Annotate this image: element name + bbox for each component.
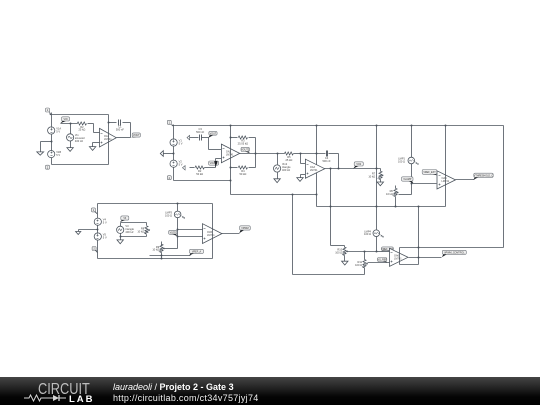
- svg-text:LM741: LM741: [310, 169, 318, 172]
- svg-text:VOUT: VOUT: [133, 134, 140, 137]
- svg-text:LM741: LM741: [226, 154, 234, 157]
- svg-text:400 Hz: 400 Hz: [125, 230, 134, 234]
- svg-text:VLAMP: VLAMP: [403, 178, 412, 181]
- svg-text:100 Ω: 100 Ω: [335, 251, 342, 255]
- svg-text:100 Ω: 100 Ω: [355, 263, 362, 267]
- svg-text:5 V: 5 V: [103, 221, 107, 225]
- svg-text:400 Hz: 400 Hz: [75, 139, 84, 143]
- svg-text:VO2: VO2: [356, 163, 361, 166]
- svg-text:VOUT: VOUT: [210, 132, 217, 135]
- svg-text:LM741: LM741: [207, 234, 215, 237]
- svg-text:500 nF: 500 nF: [322, 159, 330, 163]
- svg-text:50 kΩ: 50 kΩ: [239, 172, 246, 176]
- svg-text:LM741: LM741: [394, 258, 402, 261]
- svg-text:5 V: 5 V: [179, 163, 183, 167]
- svg-text:100 Ω: 100 Ω: [398, 160, 405, 164]
- svg-text:10 kΩ: 10 kΩ: [137, 229, 144, 233]
- svg-text:VREF_EXT: VREF_EXT: [423, 171, 436, 174]
- svg-text:VPWM: VPWM: [241, 227, 248, 230]
- svg-text:25.05 kΩ: 25.05 kΩ: [238, 142, 249, 146]
- svg-text:5 V: 5 V: [179, 141, 183, 145]
- svg-text:500 nF: 500 nF: [196, 130, 204, 134]
- svg-text:100 Ω: 100 Ω: [165, 213, 172, 217]
- svg-text:VTHRESHOLD_C: VTHRESHOLD_C: [474, 174, 494, 177]
- svg-text:10 kΩ: 10 kΩ: [386, 192, 393, 196]
- svg-text:5 V: 5 V: [56, 129, 60, 133]
- svg-text:VPWM_CONTROL: VPWM_CONTROL: [444, 251, 465, 254]
- svg-text:5 V: 5 V: [56, 153, 60, 157]
- svg-text:500 nF: 500 nF: [116, 128, 124, 132]
- svg-text:10 kΩ: 10 kΩ: [368, 175, 375, 179]
- svg-text:VREF_A: VREF_A: [192, 250, 202, 253]
- svg-text:100 Ω: 100 Ω: [364, 232, 371, 236]
- svg-text:25 kΩ: 25 kΩ: [285, 158, 292, 162]
- svg-text:50 kΩ: 50 kΩ: [196, 172, 203, 176]
- svg-text:VIN: VIN: [64, 118, 68, 121]
- svg-text:VLED: VLED: [170, 231, 177, 234]
- svg-text:VS_REF: VS_REF: [377, 259, 387, 262]
- svg-text:10 kΩ: 10 kΩ: [152, 248, 159, 252]
- svg-text:400 Hz: 400 Hz: [282, 168, 291, 172]
- svg-text:25 kΩ: 25 kΩ: [78, 128, 85, 132]
- svg-text:5 V: 5 V: [103, 235, 107, 239]
- svg-text:VOUT2: VOUT2: [241, 148, 250, 151]
